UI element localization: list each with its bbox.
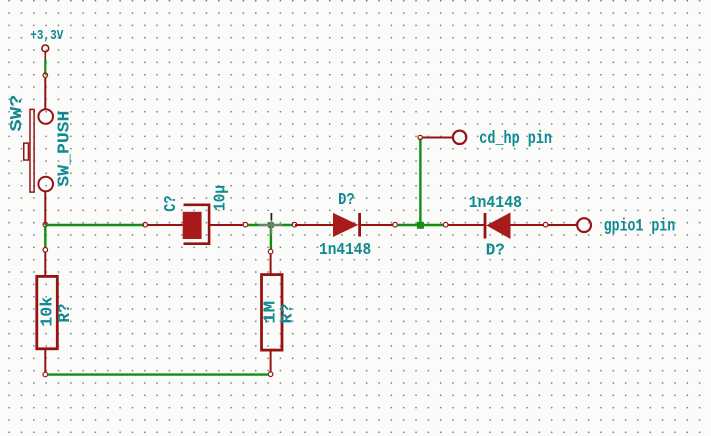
svg-text:+3,3V: +3,3V xyxy=(30,28,63,44)
wire node A down to R1 xyxy=(44,227,46,248)
svg-text:SW?: SW? xyxy=(8,95,27,132)
pin end circle C1 right xyxy=(243,222,248,227)
resistor R1 10k xyxy=(37,252,58,372)
wire node A to C1 xyxy=(45,224,144,226)
svg-text:1M: 1M xyxy=(261,301,280,324)
pin end circle cd_hp wire end xyxy=(418,135,422,139)
wire D1 to D2 with branch xyxy=(397,224,443,226)
pin end circle R1 bottom xyxy=(43,372,48,377)
wire C1 to D1 xyxy=(248,224,293,226)
junction node C (cd_hp branch) xyxy=(417,222,424,229)
junction node B (to R2) xyxy=(268,222,274,228)
switch SW1 SW_PUSH xyxy=(24,78,53,226)
svg-text:C?: C? xyxy=(162,196,181,212)
svg-text:D?: D? xyxy=(486,242,505,261)
wire node B down to R2 xyxy=(270,225,272,249)
power symbol +3.3V xyxy=(42,45,49,59)
svg-text:gpio1 pin: gpio1 pin xyxy=(604,216,676,236)
pin end circle switch pin1 xyxy=(43,73,48,78)
diode D2 1n4148 xyxy=(448,212,543,239)
pin end circle D2 left xyxy=(443,222,448,227)
svg-text:R?: R? xyxy=(56,304,75,323)
pin end circle R2 bottom xyxy=(268,372,273,377)
svg-text:10µ: 10µ xyxy=(212,185,231,211)
pin end circle R2 top xyxy=(268,249,273,254)
cursor crosshair xyxy=(259,213,283,234)
pin end circle D2 right xyxy=(543,222,548,227)
wire node C up to cd_hp xyxy=(419,139,421,225)
svg-text:cd_hp pin: cd_hp pin xyxy=(479,129,552,149)
svg-text:1n4148: 1n4148 xyxy=(319,241,371,260)
wire from +3.3V to switch xyxy=(44,59,46,75)
pin end circle R1 top xyxy=(43,248,48,253)
ground return wire R1-R2 xyxy=(48,373,269,375)
connector pin cd_hp xyxy=(422,131,466,144)
diode D1 1n4148 xyxy=(295,213,393,237)
pin end circle D1 left xyxy=(292,222,297,227)
svg-text:R?: R? xyxy=(279,304,298,324)
connector pin gpio1 xyxy=(548,218,591,232)
svg-text:D?: D? xyxy=(338,191,355,210)
pin end circle D1 right xyxy=(393,222,398,227)
junction node A (switch/R1/wire) xyxy=(43,222,48,227)
resistor R2 1M xyxy=(262,254,283,372)
svg-text:SW_PUSH: SW_PUSH xyxy=(55,111,74,187)
svg-text:10k: 10k xyxy=(39,297,58,327)
capacitor C1 10u xyxy=(148,205,244,244)
svg-text:1n4148: 1n4148 xyxy=(469,194,522,213)
pin end circle C1 left xyxy=(143,222,148,227)
